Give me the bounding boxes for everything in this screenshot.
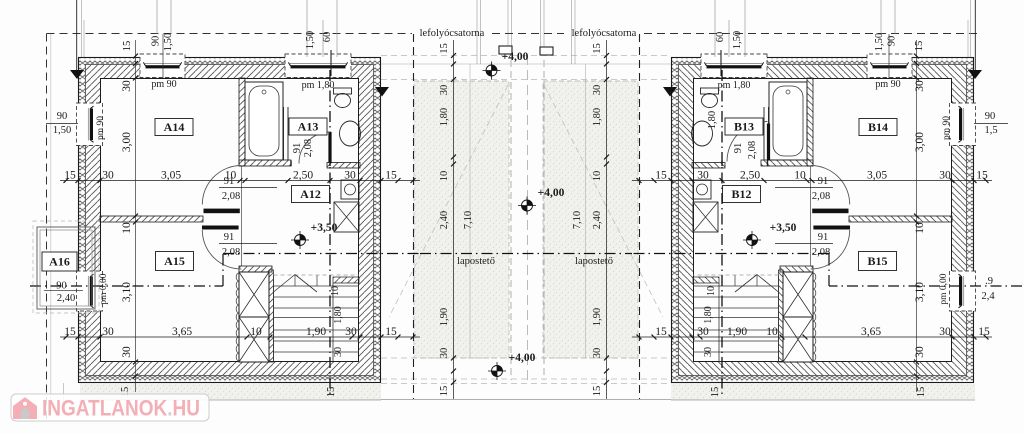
svg-text:10: 10: [121, 222, 133, 234]
svg-text:A16: A16: [49, 255, 70, 269]
svg-text:1,90: 1,90: [439, 308, 450, 326]
svg-text:15: 15: [385, 170, 397, 182]
svg-text:30: 30: [102, 170, 114, 182]
window1 mini chain: [162, 34, 164, 78]
svg-text:91: 91: [224, 176, 235, 187]
svg-text:pm 90: pm 90: [151, 79, 176, 90]
svg-text:1,80: 1,80: [333, 306, 344, 324]
svg-text:B15: B15: [867, 254, 887, 268]
door A13 arc: [299, 132, 330, 164]
svg-text:3,10: 3,10: [121, 282, 133, 302]
svg-text:15: 15: [916, 387, 927, 398]
svg-text:30: 30: [102, 326, 114, 338]
svg-text:2,08: 2,08: [222, 247, 240, 258]
svg-text:3,05: 3,05: [867, 170, 887, 182]
exterior wall structural band: [85, 64, 374, 78]
svg-text:pm 1,80: pm 1,80: [718, 80, 751, 91]
svg-text:91: 91: [733, 143, 744, 154]
watermark ingatlanok.hu: [11, 394, 209, 421]
section line jog y286/y253: [30, 285, 223, 287]
window2 mini chain lines: [306, 0, 308, 57]
svg-text:30: 30: [697, 170, 709, 182]
svg-text:15: 15: [592, 386, 603, 397]
svg-text:3,65: 3,65: [172, 326, 192, 338]
svg-text:2,08: 2,08: [747, 141, 758, 159]
room A16: [42, 252, 77, 271]
washbasin: [340, 121, 361, 146]
svg-text:3,05: 3,05: [161, 170, 181, 182]
svg-text:30: 30: [592, 348, 603, 359]
svg-text:2,4: 2,4: [981, 291, 995, 302]
svg-text:10: 10: [794, 170, 806, 182]
svg-text:15: 15: [978, 326, 990, 338]
stair side wall strip: [269, 270, 274, 362]
svg-text:30: 30: [344, 170, 356, 182]
svg-text:7,10: 7,10: [572, 211, 583, 229]
flat roof (lapostető) left stipple field: [414, 81, 509, 358]
door jambs A13 opening: [290, 161, 292, 167]
inner roof drain arrow: [375, 87, 389, 97]
court 7,10 lines: [469, 64, 471, 358]
shaft with X below washer: [334, 202, 359, 232]
svg-text:60: 60: [715, 32, 726, 43]
svg-text:30: 30: [914, 80, 926, 92]
corner drain lines + arrow: [76, 0, 78, 72]
court chain line right: [606, 40, 608, 399]
svg-text:lefolyócsatorna: lefolyócsatorna: [572, 28, 637, 39]
svg-text:15: 15: [64, 326, 76, 338]
svg-text:30: 30: [121, 80, 133, 92]
svg-text:7,10: 7,10: [463, 211, 474, 229]
svg-text:30: 30: [592, 85, 603, 96]
door 90/240 left wall (A16): [77, 271, 103, 311]
svg-text:30: 30: [121, 346, 133, 358]
dimension row lower y330: [60, 336, 420, 338]
svg-text:10: 10: [250, 326, 262, 338]
svg-text:90: 90: [887, 36, 898, 47]
svg-text:90: 90: [985, 111, 996, 122]
svg-text:91: 91: [818, 176, 829, 187]
svg-text:2,40: 2,40: [592, 211, 603, 229]
svg-text:2,08: 2,08: [812, 247, 830, 258]
court dashed y358: [381, 357, 671, 359]
svg-text:15: 15: [655, 326, 667, 338]
door B13 leaf+arc: [767, 124, 770, 161]
court dashed y379: [381, 378, 671, 380]
elevation +4,00 top: [486, 65, 497, 76]
washing machine: [341, 180, 359, 199]
svg-text:1,50: 1,50: [163, 33, 174, 51]
window 90/150 left wall A14: [77, 103, 103, 146]
court dashed y383: [381, 383, 671, 385]
svg-text:60: 60: [322, 32, 333, 43]
RIGHT UNIT geometry (mirror): [572, 0, 1023, 398]
flat roof (lapostető) right stipple field: [543, 81, 638, 358]
margin lines bottom-left: [63, 383, 65, 403]
toilet: [334, 88, 352, 94]
landing wall stub: [333, 277, 359, 283]
svg-text:15: 15: [976, 170, 988, 182]
elevation +4,00 centre: [522, 200, 533, 211]
svg-text:10: 10: [592, 171, 603, 182]
svg-text:30: 30: [439, 348, 450, 359]
court gray y399: [350, 399, 700, 401]
door B13 arc: [727, 121, 768, 161]
svg-text:B12: B12: [731, 187, 751, 201]
roof edge dashed line left: [510, 60, 512, 380]
svg-text:1,50: 1,50: [305, 31, 316, 49]
svg-text:2,08: 2,08: [303, 139, 314, 157]
pavement strip below left building: [80, 384, 381, 400]
stair direction peak: [274, 275, 296, 293]
svg-text:A12: A12: [300, 187, 321, 201]
shaft top wall: [239, 266, 272, 272]
svg-text:30: 30: [697, 326, 709, 338]
svg-text:1,90: 1,90: [306, 326, 326, 338]
room boundary line A12: [240, 166, 242, 266]
svg-text:+3,50: +3,50: [311, 222, 338, 234]
svg-text:1,90: 1,90: [727, 326, 747, 338]
section line vertical x330: [329, 70, 331, 398]
svg-text:2,08: 2,08: [812, 191, 830, 202]
svg-text:30: 30: [439, 85, 450, 96]
svg-text:15: 15: [914, 41, 925, 52]
svg-text:10: 10: [766, 326, 778, 338]
dimension row upper y179: [60, 180, 420, 182]
svg-text:15: 15: [655, 170, 667, 182]
svg-text:+4,00: +4,00: [538, 187, 565, 199]
property dashed line x413: [413, 34, 415, 399]
window pm90 top wall A14: [140, 54, 185, 78]
exterior wall insulation band: [78, 57, 381, 64]
svg-text:15: 15: [710, 387, 721, 398]
svg-text:A14: A14: [164, 120, 185, 134]
svg-text:2,40: 2,40: [439, 211, 450, 229]
svg-text:3,10: 3,10: [914, 282, 926, 302]
svg-text:30: 30: [914, 346, 926, 358]
property dashed line x639: [639, 34, 641, 399]
pavement strip below right building: [671, 384, 975, 400]
svg-text:90: 90: [151, 36, 162, 47]
svg-text:pm 90: pm 90: [96, 116, 106, 140]
stair treads: [274, 285, 360, 287]
roof slope diagonal left: [389, 85, 508, 317]
svg-text:90: 90: [56, 281, 67, 292]
svg-text:15: 15: [592, 43, 603, 54]
centre axis dashed: [527, 55, 529, 385]
room B15: [859, 252, 897, 271]
window pm180 top wall bath: [285, 54, 351, 78]
interior vertical dim chain x135: [135, 40, 137, 392]
section line across court y253: [420, 253, 632, 255]
svg-text:30: 30: [939, 170, 951, 182]
svg-text:15: 15: [64, 170, 76, 182]
svg-text:1,5: 1,5: [984, 125, 997, 136]
svg-text:pm 0,00: pm 0,00: [939, 273, 949, 304]
door A15 leaf+arc: [202, 226, 239, 230]
room B13: [725, 118, 763, 135]
svg-text:B14: B14: [868, 120, 888, 134]
svg-text:30: 30: [703, 347, 714, 357]
svg-text:90: 90: [57, 111, 68, 122]
svg-text:15: 15: [326, 387, 337, 398]
door jambs B13 opening: [721, 161, 723, 167]
svg-text:+4,00: +4,00: [509, 352, 536, 364]
door A13 leaf+arc: [328, 132, 331, 163]
room B12: [723, 186, 761, 203]
svg-text:pm 90: pm 90: [942, 116, 952, 140]
svg-text:pm 0,00: pm 0,00: [99, 273, 109, 304]
svg-text:1,80: 1,80: [707, 111, 718, 129]
room A13: [289, 118, 327, 135]
stair top dashed cut line: [274, 274, 360, 276]
elevation +4,00 bottom: [492, 366, 503, 377]
partition A14/bath vertical: [239, 78, 245, 166]
svg-text:3,65: 3,65: [861, 326, 881, 338]
svg-text:lapostető: lapostető: [575, 256, 613, 267]
svg-text:1,50: 1,50: [732, 31, 743, 49]
svg-text:10: 10: [330, 286, 341, 296]
svg-text:A13: A13: [298, 120, 319, 134]
svg-text:lapostető: lapostető: [457, 256, 495, 267]
svg-text:30: 30: [333, 347, 344, 357]
room A12: [292, 186, 330, 203]
eaves dashed line top: [381, 55, 671, 57]
svg-text:10: 10: [914, 222, 926, 234]
svg-text:15: 15: [439, 43, 450, 54]
roof edge dashed line right: [543, 60, 545, 380]
svg-text:pm 1,80: pm 1,80: [302, 80, 335, 91]
svg-text:15: 15: [122, 41, 133, 52]
svg-text:3,00: 3,00: [914, 132, 926, 152]
svg-text:30: 30: [939, 326, 951, 338]
svg-text:1,80: 1,80: [439, 108, 450, 126]
A16 annex walls: [37, 227, 95, 309]
top boundary dashed line: [47, 33, 413, 35]
svg-text:3,00: 3,00: [121, 132, 133, 152]
partition tub/A13 stub: [283, 107, 285, 160]
stair elevation symbol +3,50: [295, 235, 306, 246]
svg-text:B13: B13: [734, 120, 754, 134]
svg-text:15: 15: [385, 326, 397, 338]
svg-text:1,80: 1,80: [592, 108, 603, 126]
svg-text:1,90: 1,90: [592, 308, 603, 326]
svg-text:1,50: 1,50: [874, 33, 885, 51]
svg-text:30: 30: [345, 326, 357, 338]
door A14 (91/208) leaf+arc: [204, 209, 240, 214]
svg-text:+4,00: +4,00: [502, 51, 529, 63]
watermark house icon: [13, 398, 37, 420]
partition A14/A15 horizontal: [100, 216, 203, 222]
svg-text:.9: .9: [985, 276, 993, 287]
room A14: [155, 119, 193, 136]
gutter lines centre top: [507, 0, 509, 46]
svg-text:A15: A15: [164, 254, 185, 268]
room A15: [156, 252, 194, 271]
property dashed line left margin x46: [46, 34, 48, 421]
bathtub: [245, 82, 283, 160]
svg-text:10: 10: [706, 286, 717, 296]
svg-text:2,08: 2,08: [222, 191, 240, 202]
svg-text:1,80: 1,80: [703, 306, 714, 324]
partition below bathtub: [239, 160, 291, 166]
svg-text:INGATLANOK.HU: INGATLANOK.HU: [42, 396, 200, 421]
court chain line left: [453, 40, 455, 399]
svg-text:1,50: 1,50: [53, 125, 71, 136]
svg-text:91: 91: [224, 232, 235, 243]
partition below washbasin: [327, 163, 360, 169]
svg-text:10: 10: [439, 171, 450, 182]
court dashed y79.5: [381, 79, 671, 81]
svg-text:2,50: 2,50: [293, 170, 313, 182]
room B14: [859, 119, 897, 136]
svg-text:pm 90: pm 90: [875, 79, 900, 90]
LEFT UNIT geometry: [30, 0, 481, 398]
svg-text:+3,50: +3,50: [770, 222, 797, 234]
court line y64: [381, 63, 671, 65]
svg-text:2,50: 2,50: [740, 170, 760, 182]
svg-text:91: 91: [818, 232, 829, 243]
svg-text:15: 15: [439, 386, 450, 397]
svg-text:lefolyócsatorna: lefolyócsatorna: [420, 28, 485, 39]
svg-text:2,40: 2,40: [57, 293, 75, 304]
svg-text:91: 91: [292, 143, 303, 154]
stair shaft (void) X-boxes: [239, 272, 269, 362]
roof slope diagonal right: [544, 85, 663, 317]
